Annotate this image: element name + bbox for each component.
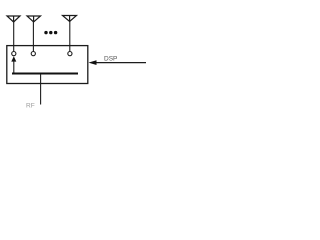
svg-text:DSP: DSP bbox=[104, 56, 117, 63]
background bbox=[0, 0, 149, 120]
contact node 1 bbox=[12, 52, 16, 56]
antenna ANT2 bbox=[27, 16, 41, 22]
switch wiper arrow bbox=[11, 56, 16, 73]
bus line bbox=[12, 73, 78, 75]
RF output wire bbox=[40, 74, 42, 105]
wire antenna2 feed bbox=[32, 22, 34, 51]
antenna ANT3 bbox=[63, 16, 77, 22]
contact node 3 bbox=[68, 52, 72, 56]
wire antenna3 feed bbox=[69, 22, 71, 52]
DSP control arrow bbox=[89, 60, 147, 65]
ellipsis dots (more antennas) bbox=[44, 31, 57, 34]
antenna ANT1 bbox=[7, 16, 20, 22]
wire antenna1 feed bbox=[13, 22, 15, 51]
svg-text:RF: RF bbox=[26, 103, 35, 110]
contact node 2 bbox=[31, 52, 35, 56]
switch box bbox=[7, 46, 88, 84]
